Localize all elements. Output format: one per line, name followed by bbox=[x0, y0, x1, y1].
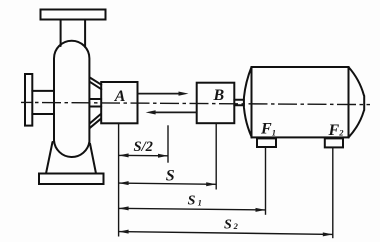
extension line below F2 bbox=[332, 147, 334, 238]
pump casing body bbox=[54, 41, 89, 141]
pump suction flange bbox=[25, 74, 32, 126]
dimension line S2 bbox=[119, 232, 333, 235]
extension line below A bbox=[118, 123, 120, 236]
extension line below F1 bbox=[265, 147, 267, 215]
axial play arrow toward A bbox=[153, 111, 197, 113]
arrowheads S/2 bbox=[119, 153, 129, 157]
extension line below B bbox=[215, 123, 217, 189]
svg-text:F: F bbox=[328, 122, 340, 139]
arrowhead right (axial arrow) bbox=[179, 92, 189, 96]
svg-text:2: 2 bbox=[338, 128, 344, 138]
extension line midpoint of S bbox=[167, 125, 169, 162]
pump suction pipe bbox=[32, 91, 54, 114]
motor foot F2 bbox=[325, 138, 343, 147]
svg-text:S: S bbox=[188, 194, 196, 209]
axial play arrow toward B bbox=[138, 93, 182, 95]
dimension line S bbox=[119, 183, 217, 184]
motor shaft bbox=[234, 100, 244, 105]
pump bearing bracket top ribs bbox=[90, 78, 102, 90]
pump top flange bbox=[41, 10, 106, 20]
pump pedestal bbox=[46, 142, 96, 174]
dimension line S/2 bbox=[119, 154, 168, 156]
pump shaft to coupling A bbox=[90, 99, 101, 107]
arrowheads S1 bbox=[119, 206, 129, 210]
svg-text:A: A bbox=[114, 88, 126, 105]
centerline bbox=[21, 102, 370, 104]
svg-text:S: S bbox=[224, 217, 232, 232]
pump bearing bracket bottom ribs bbox=[90, 114, 101, 128]
coupling half B bbox=[197, 83, 235, 124]
svg-text:1: 1 bbox=[198, 197, 202, 207]
motor right end bell bbox=[349, 67, 365, 137]
motor body bbox=[252, 67, 349, 137]
svg-text:2: 2 bbox=[233, 221, 239, 231]
motor foot F1 bbox=[257, 138, 276, 147]
svg-text:B: B bbox=[213, 87, 225, 104]
arrowhead left (axial arrow) bbox=[146, 110, 156, 114]
svg-text:F: F bbox=[260, 121, 272, 138]
coupling half A bbox=[101, 82, 137, 123]
arrowheads S2 bbox=[119, 230, 129, 234]
dimension line S1 bbox=[119, 208, 266, 210]
pump discharge neck bbox=[61, 20, 86, 48]
svg-text:1: 1 bbox=[272, 127, 276, 137]
pump base plate bbox=[39, 174, 104, 185]
arrowheads S bbox=[119, 181, 129, 185]
pump casing bottom arc bbox=[54, 141, 89, 157]
svg-text:S/2: S/2 bbox=[134, 139, 153, 155]
svg-text:S: S bbox=[166, 168, 175, 185]
motor left end bell bbox=[244, 67, 252, 137]
